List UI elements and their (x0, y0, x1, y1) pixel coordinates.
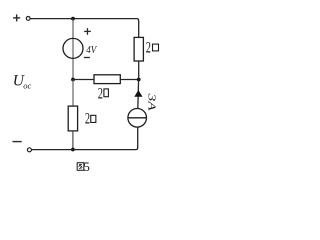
caption figure 5 (tu5) (77, 159, 90, 174)
resistor R2 value label 2(ohm missing glyph box) (98, 85, 109, 102)
junction dot mid-left node (71, 78, 75, 82)
resistor R1 2ohm vertical right (134, 37, 143, 61)
wire left branch lower (node to resistor R3) (72, 80, 74, 107)
wire current source shaft (137, 80, 140, 109)
junction dot top node (71, 17, 75, 21)
current source I1 perpendicular bar (128, 117, 147, 119)
wire resistor R3 to bottom node (72, 131, 74, 150)
svg-text:oc: oc (23, 80, 31, 90)
svg-text:2: 2 (146, 39, 151, 56)
wire top (terminal a to resistor R1) (31, 19, 139, 38)
wire right branch (resistor R1 to right node) (138, 61, 140, 80)
svg-text:2: 2 (85, 111, 90, 128)
wire mid left (node to resistor R2) (73, 79, 94, 81)
wire left branch (through voltage source) (72, 19, 74, 80)
junction dot right node (137, 78, 141, 82)
svg-text:4V: 4V (86, 45, 98, 56)
terminal minus sign bottom-left (13, 141, 22, 143)
voltage source polarity minus mark (84, 57, 90, 59)
resistor R3 value label 2(ohm missing glyph box) (85, 111, 96, 128)
wire bottom (current source to terminal b) (32, 127, 138, 149)
terminal plus sign (+) top-left (13, 14, 20, 21)
wire mid right (resistor R2 to right node) (120, 79, 138, 81)
voltage source polarity plus mark (84, 28, 91, 35)
svg-text:3A: 3A (146, 92, 157, 112)
resistor R3 2ohm vertical left (68, 106, 77, 131)
resistor R1 value label 2(ohm missing glyph box) (146, 39, 159, 56)
current source I1 circle (128, 109, 147, 128)
node b open terminal circle (27, 148, 31, 152)
junction dot bottom node (71, 148, 75, 152)
current source I1 arrow head (pointing up) (134, 90, 142, 97)
label Uoc open-circuit voltage (13, 73, 32, 91)
node a open terminal circle (26, 17, 30, 21)
svg-text:2: 2 (98, 85, 103, 102)
svg-text:5: 5 (83, 159, 90, 174)
resistor R2 2ohm horizontal (94, 75, 120, 84)
voltage source U1 circle (63, 38, 83, 58)
